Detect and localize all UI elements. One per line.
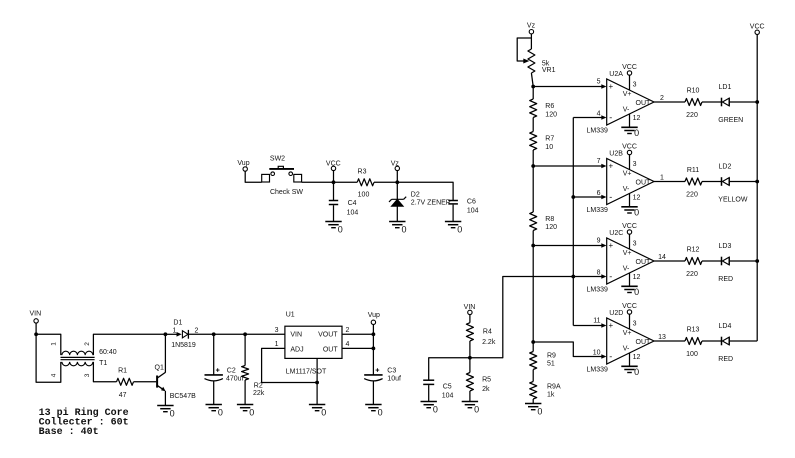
ground R5 xyxy=(462,402,479,415)
svg-text:220: 220 xyxy=(686,192,698,199)
wire R12 to LD3 xyxy=(702,260,722,262)
wire LD4 to VCC rail xyxy=(729,340,757,342)
svg-text:V+: V+ xyxy=(623,171,632,178)
resistor R11 xyxy=(685,178,702,185)
LED LD3 xyxy=(718,243,733,283)
svg-text:OUT: OUT xyxy=(323,346,339,353)
wire R2 node to U1 VIN xyxy=(245,333,285,335)
svg-text:VR1: VR1 xyxy=(542,67,556,74)
label U2D input pins xyxy=(593,317,601,356)
svg-text:220: 220 xyxy=(686,112,698,119)
wire feedback to U2D plus xyxy=(573,325,601,327)
wire U2B pin3 stub xyxy=(629,155,631,170)
wire VIN stub xyxy=(35,323,37,334)
node VIN junction xyxy=(34,332,38,336)
svg-text:10uf: 10uf xyxy=(387,376,401,383)
svg-text:R8: R8 xyxy=(545,216,554,223)
svg-text:Vz: Vz xyxy=(527,23,536,30)
svg-text:VIN: VIN xyxy=(464,304,476,311)
node ADJ junction xyxy=(315,381,319,385)
wire U2C output xyxy=(654,260,685,262)
wire Vup to switch xyxy=(245,171,262,182)
svg-text:VCC: VCC xyxy=(622,223,637,230)
wire tap2 to U2B plus xyxy=(533,165,601,167)
svg-text:13: 13 xyxy=(658,334,666,341)
svg-text:R2: R2 xyxy=(254,383,263,390)
svg-text:OUT: OUT xyxy=(636,259,652,266)
svg-text:OUT: OUT xyxy=(636,100,652,107)
node feedback tap U2B xyxy=(571,195,575,199)
wire U2C pin12 stub xyxy=(629,273,631,287)
svg-text:VIN: VIN xyxy=(290,332,302,339)
wire U2D pin12 stub xyxy=(629,353,631,367)
node VOUT junction xyxy=(372,332,376,336)
wire divider to comparators xyxy=(470,277,602,358)
resistor R2 xyxy=(242,334,265,404)
wire LD1 to VCC rail xyxy=(729,101,757,103)
wire feedback to U2B minus xyxy=(573,196,601,198)
wire U1 ground pin xyxy=(316,358,318,404)
wire Vup vertical xyxy=(372,325,374,375)
ground U1 xyxy=(309,405,326,418)
node U2A input arrows xyxy=(601,84,606,120)
svg-text:U2B: U2B xyxy=(609,151,623,158)
svg-text:LM339: LM339 xyxy=(587,128,609,135)
capacitor C3 xyxy=(364,368,401,405)
svg-text:LM339: LM339 xyxy=(587,367,609,374)
svg-text:0: 0 xyxy=(433,405,438,415)
resistor R12 xyxy=(685,258,702,265)
svg-text:1N5819: 1N5819 xyxy=(171,342,196,349)
svg-text:LM339: LM339 xyxy=(587,207,609,214)
svg-text:12: 12 xyxy=(633,115,641,122)
node U2D input arrows xyxy=(601,323,606,359)
ground C2 xyxy=(206,405,223,418)
svg-text:0: 0 xyxy=(249,408,254,418)
node Vup terminal xyxy=(237,160,249,171)
power VCC terminal U2B xyxy=(622,143,637,154)
svg-text:V-: V- xyxy=(623,186,630,193)
wire R11 to LD2 xyxy=(702,181,722,183)
svg-text:0: 0 xyxy=(634,208,639,218)
wire U1 OUT to Vup xyxy=(342,347,373,349)
wire D1 node to R2 node xyxy=(214,333,245,335)
power VCC terminal U2C xyxy=(622,223,637,234)
svg-text:9: 9 xyxy=(597,237,601,244)
svg-text:R9A: R9A xyxy=(547,384,561,391)
svg-text:0: 0 xyxy=(338,225,343,235)
ground C6 xyxy=(445,222,462,235)
svg-text:2k: 2k xyxy=(482,386,490,393)
svg-text:V-: V- xyxy=(623,266,630,273)
svg-text:RED: RED xyxy=(718,356,733,363)
node OUT junction xyxy=(372,347,376,351)
svg-text:C5: C5 xyxy=(443,383,452,390)
svg-text:U2D: U2D xyxy=(609,310,623,317)
op-amp U2B xyxy=(587,151,655,215)
ground R2 xyxy=(237,405,254,418)
diode D2 zener xyxy=(389,182,451,221)
potentiometer VR1 xyxy=(517,34,555,87)
ground C4 xyxy=(325,222,342,235)
resistor R3 xyxy=(357,179,374,186)
node R2 junction xyxy=(243,332,247,336)
svg-text:VCC: VCC xyxy=(326,161,341,168)
svg-text:1: 1 xyxy=(660,175,664,182)
svg-text:3: 3 xyxy=(84,373,91,377)
wire U2C pin3 stub xyxy=(629,234,631,249)
label U1 pin numbers xyxy=(275,327,350,348)
svg-text:120: 120 xyxy=(545,224,557,231)
svg-text:R4: R4 xyxy=(483,328,492,335)
wire R3 to Vz node xyxy=(374,181,397,183)
svg-text:4: 4 xyxy=(346,341,350,348)
svg-text:1: 1 xyxy=(173,327,177,334)
svg-text:7: 7 xyxy=(597,158,601,165)
svg-text:4: 4 xyxy=(597,111,601,118)
svg-text:2: 2 xyxy=(660,95,664,102)
power VCC terminal rail xyxy=(750,24,765,35)
svg-text:0: 0 xyxy=(474,405,479,415)
svg-text:R5: R5 xyxy=(482,376,491,383)
svg-text:Check SW: Check SW xyxy=(270,189,303,196)
svg-text:LM339: LM339 xyxy=(587,287,609,294)
svg-text:104: 104 xyxy=(442,393,454,400)
svg-text:104: 104 xyxy=(347,209,359,216)
label U2B input pins xyxy=(597,158,601,197)
label R1 xyxy=(118,368,127,400)
svg-text:R3: R3 xyxy=(358,168,367,175)
svg-text:R6: R6 xyxy=(545,103,554,110)
op-amp U2A xyxy=(587,71,655,135)
label R11 xyxy=(686,167,699,199)
wire tap1 to U2A plus xyxy=(533,86,601,88)
wire VIN to T1 pin4 xyxy=(36,334,61,382)
svg-text:LM1117/SOT: LM1117/SOT xyxy=(286,368,327,375)
wire U2A output xyxy=(654,101,685,103)
resistor R4 xyxy=(466,315,495,358)
svg-text:U2A: U2A xyxy=(609,71,623,78)
svg-text:+: + xyxy=(608,241,613,250)
svg-text:LD4: LD4 xyxy=(719,323,732,330)
label U2C input pins xyxy=(597,237,601,276)
svg-text:VCC: VCC xyxy=(622,143,637,150)
svg-text:V-: V- xyxy=(623,346,630,353)
svg-text:2.2k: 2.2k xyxy=(482,339,496,346)
wire feedback to U2A minus xyxy=(573,117,601,119)
svg-text:R1: R1 xyxy=(118,368,127,375)
resistor R5 xyxy=(466,358,491,402)
transformer T1 xyxy=(51,342,117,377)
wire T1 pin3 to R1 xyxy=(93,362,116,382)
node Vz junction xyxy=(395,180,399,184)
svg-text:12: 12 xyxy=(633,194,641,201)
wire U2A pin3 stub xyxy=(629,75,631,90)
svg-text:Q1: Q1 xyxy=(155,365,164,372)
resistor R9 xyxy=(530,342,556,370)
wire feedback vertical xyxy=(572,118,574,326)
svg-text:14: 14 xyxy=(658,254,666,261)
LED LD4 xyxy=(718,323,733,363)
svg-text:OUT: OUT xyxy=(636,339,652,346)
svg-text:3: 3 xyxy=(633,320,637,327)
svg-text:ADJ: ADJ xyxy=(290,346,303,353)
svg-text:R10: R10 xyxy=(687,88,700,95)
svg-text:V+: V+ xyxy=(623,330,632,337)
svg-text:+: + xyxy=(608,82,613,91)
resistor R10 xyxy=(685,99,702,106)
svg-text:0: 0 xyxy=(321,408,326,418)
wire VCC node to R3 xyxy=(334,181,358,183)
svg-text:V+: V+ xyxy=(623,91,632,98)
wire node to C5 xyxy=(429,358,470,380)
label R10 xyxy=(686,88,699,120)
wire U2B output xyxy=(654,181,685,183)
svg-text:100: 100 xyxy=(358,192,370,199)
svg-text:T1: T1 xyxy=(99,360,107,367)
node C2 junction xyxy=(212,332,216,336)
ground U2C xyxy=(621,286,639,297)
svg-text:10: 10 xyxy=(545,144,553,151)
svg-text:-: - xyxy=(609,352,612,362)
wire Vz terminal stub xyxy=(396,171,398,183)
svg-text:V+: V+ xyxy=(623,250,632,257)
node chain tap4 xyxy=(531,340,535,344)
wire T1 pin2 to D1 node xyxy=(93,334,165,355)
svg-text:10: 10 xyxy=(593,350,601,357)
node Vup terminal right xyxy=(368,312,380,325)
svg-text:3: 3 xyxy=(633,161,637,168)
svg-text:0: 0 xyxy=(402,225,407,235)
svg-text:R9: R9 xyxy=(547,353,556,360)
svg-text:VCC: VCC xyxy=(750,24,765,31)
svg-text:12: 12 xyxy=(633,274,641,281)
svg-text:3: 3 xyxy=(633,81,637,88)
svg-text:3: 3 xyxy=(275,327,279,334)
svg-text:2.7V ZENER: 2.7V ZENER xyxy=(411,200,451,207)
capacitor C4 xyxy=(329,182,359,221)
ground R9A xyxy=(525,404,542,417)
svg-text:2: 2 xyxy=(84,342,91,346)
svg-text:0: 0 xyxy=(634,287,639,297)
resistor R7 xyxy=(530,118,555,167)
resistor R9A xyxy=(530,370,561,404)
wire LD2 to VCC rail xyxy=(729,181,757,183)
label R12 xyxy=(686,247,699,279)
node VCC rail LD2 xyxy=(755,180,759,184)
svg-text:1: 1 xyxy=(51,342,58,346)
svg-text:Vup: Vup xyxy=(237,160,249,167)
node VIN terminal left xyxy=(29,310,41,323)
label R13 xyxy=(686,327,699,359)
svg-text:U2C: U2C xyxy=(609,230,623,237)
wire U2B pin12 stub xyxy=(629,193,631,207)
svg-text:C4: C4 xyxy=(348,200,357,207)
svg-text:YELLOW: YELLOW xyxy=(718,196,748,203)
node chain tap2 xyxy=(531,164,535,168)
svg-text:LD3: LD3 xyxy=(719,243,732,250)
wire LD3 to VCC rail xyxy=(729,260,757,262)
svg-text:-: - xyxy=(609,272,612,282)
wire Vz node to C6 xyxy=(397,182,453,200)
svg-text:11: 11 xyxy=(593,317,600,324)
svg-text:5: 5 xyxy=(597,78,601,85)
resistor R6 xyxy=(530,87,557,119)
svg-text:C6: C6 xyxy=(467,199,476,206)
node VCC rail LD1 xyxy=(755,100,759,104)
wire chain down xyxy=(532,246,534,343)
node R4 R5 junction xyxy=(468,356,472,360)
power VCC terminal U2A xyxy=(622,64,637,75)
power VCC terminal xyxy=(326,161,341,171)
svg-text:104: 104 xyxy=(467,208,479,215)
LED LD1 xyxy=(718,84,743,124)
svg-text:220: 220 xyxy=(686,271,698,278)
svg-text:D2: D2 xyxy=(411,192,420,199)
svg-text:3: 3 xyxy=(633,240,637,247)
svg-text:R11: R11 xyxy=(687,167,699,174)
svg-text:VCC: VCC xyxy=(622,64,637,71)
op-amp U2D xyxy=(587,310,655,374)
wire switch to VCC node xyxy=(302,181,334,183)
svg-text:D1: D1 xyxy=(173,320,182,327)
svg-text:4: 4 xyxy=(51,373,58,377)
svg-text:OUT: OUT xyxy=(636,180,652,187)
svg-text:-: - xyxy=(609,192,612,202)
ground U2D xyxy=(621,366,639,377)
wire U2D output xyxy=(654,340,685,342)
node feedback tap U2C xyxy=(571,275,575,279)
wire tap3 to U2C plus xyxy=(533,245,601,247)
svg-text:C2: C2 xyxy=(227,368,236,375)
node chain tap3 xyxy=(531,244,535,248)
svg-text:0: 0 xyxy=(634,367,639,377)
svg-text:12: 12 xyxy=(633,354,641,361)
node Vz terminal xyxy=(391,161,400,171)
switch SW2 xyxy=(262,155,304,196)
ground D2 xyxy=(389,222,406,235)
LED LD2 xyxy=(718,164,748,204)
wire R1 to Q1 base xyxy=(134,381,157,383)
svg-text:120: 120 xyxy=(545,111,557,118)
svg-text:C3: C3 xyxy=(387,368,396,375)
svg-text:VIN: VIN xyxy=(29,310,41,317)
svg-text:GREEN: GREEN xyxy=(718,117,743,124)
power VCC terminal U2D xyxy=(622,303,637,314)
svg-text:6: 6 xyxy=(597,190,601,197)
svg-text:8: 8 xyxy=(597,270,601,277)
svg-text:V-: V- xyxy=(623,107,630,114)
label U2A input pins xyxy=(597,78,601,117)
label R3 xyxy=(358,168,370,198)
wire U2D pin3 stub xyxy=(629,314,631,329)
node U2C input arrows xyxy=(601,243,606,279)
ground C3 xyxy=(365,405,382,418)
wire R13 to LD4 xyxy=(702,340,722,342)
svg-text:R12: R12 xyxy=(687,247,700,254)
op-amp U2C xyxy=(587,230,655,294)
svg-text:0: 0 xyxy=(537,407,542,417)
node VCC rail LD3 xyxy=(755,259,759,263)
ground C5 xyxy=(421,402,438,415)
svg-text:1k: 1k xyxy=(547,392,555,399)
svg-text:1: 1 xyxy=(275,341,279,348)
wire VIN to T1 pin1 xyxy=(36,334,61,355)
svg-text:+: + xyxy=(608,321,613,330)
capacitor C5 xyxy=(423,380,453,401)
wire R10 to LD1 xyxy=(702,101,722,103)
svg-text:R13: R13 xyxy=(687,327,700,334)
ground U2B xyxy=(621,207,639,218)
svg-text:LD1: LD1 xyxy=(719,84,732,91)
note ring core text xyxy=(39,407,129,438)
node Vz terminal top xyxy=(527,23,536,34)
svg-text:51: 51 xyxy=(547,361,555,368)
svg-text:Vup: Vup xyxy=(368,312,380,319)
resistor R8 xyxy=(530,166,557,246)
wire VCC terminal stub xyxy=(333,171,335,183)
op-amp U1 regulator LM1117 xyxy=(285,311,342,375)
ground U2A xyxy=(621,127,639,138)
svg-text:RED: RED xyxy=(718,276,733,283)
svg-text:0: 0 xyxy=(170,409,175,419)
resistor R13 xyxy=(685,338,702,345)
svg-text:0: 0 xyxy=(378,408,383,418)
svg-text:0: 0 xyxy=(634,128,639,138)
capacitor C2 xyxy=(205,334,244,404)
svg-text:470uf: 470uf xyxy=(226,376,244,383)
svg-text:0: 0 xyxy=(218,408,223,418)
diode D1 xyxy=(165,320,213,349)
wire U1 ADJ feedback xyxy=(262,348,318,382)
svg-text:-: - xyxy=(609,113,612,123)
svg-text:0: 0 xyxy=(457,225,462,235)
svg-text:+: + xyxy=(608,162,613,171)
svg-text:U1: U1 xyxy=(286,311,295,318)
svg-text:100: 100 xyxy=(686,351,698,358)
svg-text:Base : 40t: Base : 40t xyxy=(39,427,99,438)
svg-text:22k: 22k xyxy=(253,390,265,397)
svg-text:LD2: LD2 xyxy=(719,164,732,171)
node U2B input arrows xyxy=(601,164,606,200)
svg-text:Vz: Vz xyxy=(391,161,400,168)
node VCC junction xyxy=(332,180,336,184)
ground Q1 xyxy=(157,406,174,419)
svg-text:47: 47 xyxy=(119,392,127,399)
node VIN terminal right xyxy=(464,304,476,315)
svg-text:VOUT: VOUT xyxy=(318,332,338,339)
wire VCC rail xyxy=(756,35,758,342)
svg-text:BC547B: BC547B xyxy=(170,393,196,400)
node chain tap1 xyxy=(531,85,535,89)
resistor R1 xyxy=(117,378,134,385)
node D1 anode junction xyxy=(164,332,168,336)
wire U2A pin12 stub xyxy=(629,114,631,128)
wire tap4 to U2D minus xyxy=(533,342,601,357)
wire U1 VOUT to Vup xyxy=(342,333,373,335)
svg-text:2: 2 xyxy=(195,327,199,334)
capacitor C6 xyxy=(448,199,478,222)
svg-text:2: 2 xyxy=(346,327,350,334)
svg-text:VCC: VCC xyxy=(622,303,637,310)
wire Q1 collector xyxy=(164,334,166,372)
svg-text:60:40: 60:40 xyxy=(99,349,117,356)
svg-text:R7: R7 xyxy=(545,136,554,143)
svg-text:SW2: SW2 xyxy=(270,155,285,162)
transistor Q1 xyxy=(155,365,197,406)
